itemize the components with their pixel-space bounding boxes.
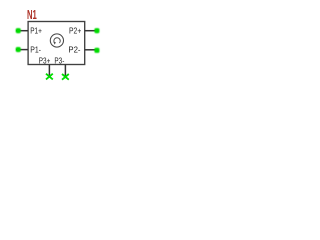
symbol circle (rotation source)	[50, 34, 63, 47]
svg-text:P1+: P1+	[30, 27, 42, 36]
terminal P2+	[94, 28, 99, 33]
svg-text:N1: N1	[27, 7, 37, 22]
wire pin P2-	[85, 49, 97, 51]
terminal P1-	[16, 47, 21, 52]
wire pin P3-	[64, 65, 66, 77]
svg-text:P2-: P2-	[68, 46, 80, 55]
wire pin P1-	[16, 49, 28, 51]
svg-text:P1-: P1-	[30, 46, 41, 55]
wire pin P2+	[85, 30, 97, 32]
svg-text:P2+: P2+	[69, 27, 82, 36]
terminal P2-	[94, 48, 99, 53]
wire pin P1+	[16, 30, 28, 32]
symbol arrowhead	[54, 42, 56, 45]
wire pin P3+	[48, 65, 50, 77]
terminal P1+	[16, 28, 21, 33]
terminal P3+ (X marker)	[46, 74, 53, 80]
svg-text:P3+: P3+	[39, 56, 51, 65]
svg-text:P3-: P3-	[54, 56, 64, 65]
terminal P3- (X marker)	[62, 74, 69, 80]
symbol inner arrow arc	[54, 38, 60, 43]
component N1 body	[28, 22, 85, 65]
